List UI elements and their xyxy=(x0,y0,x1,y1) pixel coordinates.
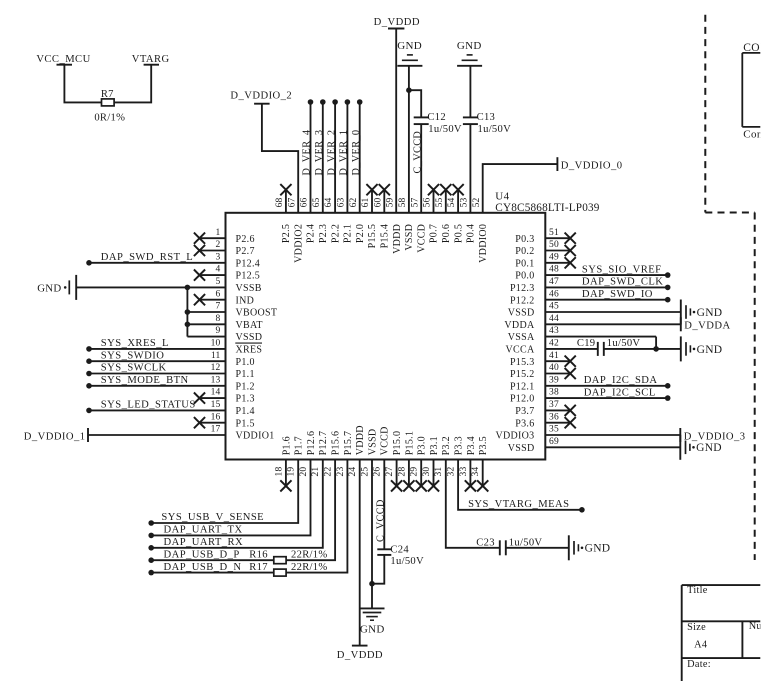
svg-text:P1.4: P1.4 xyxy=(236,406,255,417)
svg-text:DAP_SWD_RST_L: DAP_SWD_RST_L xyxy=(101,252,193,263)
svg-text:D_VDDIO_1: D_VDDIO_1 xyxy=(24,431,86,442)
svg-text:42: 42 xyxy=(549,339,559,349)
svg-text:P2.3: P2.3 xyxy=(318,224,329,243)
svg-text:P0.0: P0.0 xyxy=(515,271,534,282)
svg-text:P15.5: P15.5 xyxy=(367,224,378,249)
svg-text:P3.0: P3.0 xyxy=(417,436,428,455)
svg-text:P1.7: P1.7 xyxy=(294,436,305,455)
svg-text:1: 1 xyxy=(216,228,221,238)
svg-text:30: 30 xyxy=(422,467,432,477)
svg-text:SYS_SWDIO: SYS_SWDIO xyxy=(101,350,165,361)
svg-text:51: 51 xyxy=(549,228,559,238)
svg-text:DAP_USB_D_P: DAP_USB_D_P xyxy=(164,549,240,560)
svg-text:D_VDDIO_3: D_VDDIO_3 xyxy=(684,431,746,442)
svg-text:1u/50V: 1u/50V xyxy=(478,124,512,135)
svg-text:P3.5: P3.5 xyxy=(478,436,489,455)
svg-text:2: 2 xyxy=(216,240,221,250)
svg-text:P0.2: P0.2 xyxy=(515,246,534,257)
svg-text:58: 58 xyxy=(398,197,408,207)
svg-text:43: 43 xyxy=(549,326,559,336)
svg-text:P12.6: P12.6 xyxy=(306,431,317,456)
svg-text:D_VER_1: D_VER_1 xyxy=(339,130,350,176)
svg-text:Date:: Date: xyxy=(687,659,711,670)
svg-text:VDDIO3: VDDIO3 xyxy=(495,431,534,442)
svg-text:16: 16 xyxy=(211,412,221,422)
svg-text:38: 38 xyxy=(549,388,559,398)
svg-text:32: 32 xyxy=(447,467,457,477)
svg-text:P3.6: P3.6 xyxy=(515,418,534,429)
svg-text:10: 10 xyxy=(211,339,221,349)
svg-text:P15.0: P15.0 xyxy=(392,431,403,456)
svg-text:P15.6: P15.6 xyxy=(331,431,342,456)
svg-text:18: 18 xyxy=(274,467,284,477)
svg-text:20: 20 xyxy=(299,467,309,477)
svg-text:55: 55 xyxy=(435,197,445,207)
svg-text:VCC_MCU: VCC_MCU xyxy=(36,54,90,65)
svg-text:P12.4: P12.4 xyxy=(236,258,261,269)
svg-text:P2.0: P2.0 xyxy=(355,224,366,243)
svg-text:DAP_I2C_SCL: DAP_I2C_SCL xyxy=(584,387,656,398)
svg-text:56: 56 xyxy=(423,197,433,207)
svg-text:C_VCCD: C_VCCD xyxy=(413,131,424,174)
svg-text:11: 11 xyxy=(211,351,221,361)
svg-text:69: 69 xyxy=(549,437,559,447)
svg-text:VCCD: VCCD xyxy=(380,426,391,455)
svg-text:VTARG: VTARG xyxy=(132,54,170,65)
svg-text:DAP_SWD_CLK: DAP_SWD_CLK xyxy=(582,277,663,288)
svg-text:VSSD: VSSD xyxy=(508,308,535,319)
svg-text:P15.2: P15.2 xyxy=(510,369,535,380)
svg-text:P1.3: P1.3 xyxy=(236,394,255,405)
svg-text:P12.2: P12.2 xyxy=(510,295,535,306)
svg-text:P0.6: P0.6 xyxy=(441,224,452,243)
svg-text:P3.2: P3.2 xyxy=(441,436,452,455)
svg-text:D_VDDD: D_VDDD xyxy=(374,17,420,28)
svg-text:P1.2: P1.2 xyxy=(236,381,255,392)
svg-text:4: 4 xyxy=(216,265,221,275)
svg-text:9: 9 xyxy=(216,326,221,336)
svg-text:60: 60 xyxy=(373,197,383,207)
svg-text:VSSD: VSSD xyxy=(508,443,535,454)
svg-text:P12.3: P12.3 xyxy=(510,283,535,294)
svg-text:P3.7: P3.7 xyxy=(515,406,534,417)
svg-text:37: 37 xyxy=(549,400,559,410)
svg-text:SYS_LED_STATUS: SYS_LED_STATUS xyxy=(101,400,196,411)
svg-text:C12: C12 xyxy=(427,112,446,123)
svg-text:P0.3: P0.3 xyxy=(515,234,534,245)
svg-text:DAP_USB_D_N: DAP_USB_D_N xyxy=(164,562,242,573)
svg-text:P2.6: P2.6 xyxy=(236,234,255,245)
svg-text:IND: IND xyxy=(236,295,255,306)
svg-text:VDDIO0: VDDIO0 xyxy=(478,224,489,263)
svg-text:41: 41 xyxy=(549,351,559,361)
svg-text:54: 54 xyxy=(447,197,457,207)
svg-text:U4: U4 xyxy=(495,190,509,202)
svg-text:D_VDDIO_2: D_VDDIO_2 xyxy=(230,90,292,101)
svg-text:CY8C5868LTI-LP039: CY8C5868LTI-LP039 xyxy=(495,202,600,214)
svg-text:49: 49 xyxy=(549,252,559,262)
svg-text:GND: GND xyxy=(697,307,723,319)
svg-text:D_VER_4: D_VER_4 xyxy=(302,130,313,176)
svg-text:DAP_I2C_SDA: DAP_I2C_SDA xyxy=(584,375,658,386)
svg-text:P15.4: P15.4 xyxy=(380,224,391,249)
svg-text:P0.1: P0.1 xyxy=(515,258,534,269)
svg-text:VDDIO2: VDDIO2 xyxy=(293,224,304,263)
svg-text:3: 3 xyxy=(216,252,221,262)
svg-text:5: 5 xyxy=(216,277,221,287)
svg-text:R16: R16 xyxy=(249,549,268,560)
svg-text:40: 40 xyxy=(549,363,559,373)
svg-text:VSSB: VSSB xyxy=(236,283,262,294)
svg-text:22R/1%: 22R/1% xyxy=(291,562,328,573)
svg-text:39: 39 xyxy=(549,375,559,385)
svg-text:SYS_VTARG_MEAS: SYS_VTARG_MEAS xyxy=(468,499,569,510)
svg-text:P0.7: P0.7 xyxy=(429,224,440,243)
svg-text:31: 31 xyxy=(434,467,444,477)
svg-text:26: 26 xyxy=(373,467,383,477)
svg-text:D_VDDIO_0: D_VDDIO_0 xyxy=(561,160,623,171)
svg-text:65: 65 xyxy=(312,197,322,207)
svg-text:35: 35 xyxy=(549,425,559,435)
svg-text:R7: R7 xyxy=(101,89,114,100)
svg-text:C19: C19 xyxy=(577,338,596,349)
svg-text:P1.0: P1.0 xyxy=(236,357,255,368)
svg-text:P12.5: P12.5 xyxy=(236,271,261,282)
svg-text:SYS_MODE_BTN: SYS_MODE_BTN xyxy=(101,375,189,386)
svg-text:1u/50V: 1u/50V xyxy=(390,556,424,567)
svg-text:19: 19 xyxy=(287,467,297,477)
svg-text:P0.4: P0.4 xyxy=(466,224,477,243)
svg-text:53: 53 xyxy=(460,197,470,207)
svg-text:7: 7 xyxy=(216,302,221,312)
svg-text:8: 8 xyxy=(216,314,221,324)
svg-text:22R/1%: 22R/1% xyxy=(291,549,328,560)
svg-text:P2.4: P2.4 xyxy=(306,224,317,243)
svg-text:P2.1: P2.1 xyxy=(343,224,354,243)
svg-text:SYS_XRES_L: SYS_XRES_L xyxy=(101,338,169,349)
svg-text:67: 67 xyxy=(287,197,297,207)
svg-text:P12.1: P12.1 xyxy=(510,381,535,392)
svg-text:VDDA: VDDA xyxy=(504,320,535,331)
svg-text:P3.1: P3.1 xyxy=(429,436,440,455)
svg-text:VSSD: VSSD xyxy=(236,332,263,343)
svg-text:22: 22 xyxy=(324,467,334,477)
svg-text:14: 14 xyxy=(211,388,221,398)
svg-text:P2.5: P2.5 xyxy=(281,224,292,243)
svg-text:P0.5: P0.5 xyxy=(453,224,464,243)
svg-text:VCCA: VCCA xyxy=(506,345,535,356)
svg-text:1u/50V: 1u/50V xyxy=(607,338,641,349)
svg-text:P2.2: P2.2 xyxy=(330,224,341,243)
svg-text:GND: GND xyxy=(360,624,385,636)
svg-text:D_VDDD: D_VDDD xyxy=(337,650,383,661)
svg-text:23: 23 xyxy=(336,467,346,477)
svg-text:15: 15 xyxy=(211,400,221,410)
svg-text:34: 34 xyxy=(471,467,481,477)
svg-text:GND: GND xyxy=(37,283,61,295)
svg-text:C23: C23 xyxy=(476,537,495,548)
svg-text:DAP_UART_TX: DAP_UART_TX xyxy=(164,525,243,536)
svg-text:D_VDDA: D_VDDA xyxy=(684,321,730,332)
svg-text:66: 66 xyxy=(300,197,310,207)
svg-text:VSSD: VSSD xyxy=(404,224,415,251)
svg-text:P2.7: P2.7 xyxy=(236,246,255,257)
svg-text:50: 50 xyxy=(549,240,559,250)
svg-text:59: 59 xyxy=(386,197,396,207)
svg-text:P15.3: P15.3 xyxy=(510,357,535,368)
svg-text:44: 44 xyxy=(549,314,559,324)
svg-text:47: 47 xyxy=(549,277,559,287)
svg-text:VDDD: VDDD xyxy=(355,425,366,455)
svg-text:VSSD: VSSD xyxy=(367,429,378,456)
svg-text:57: 57 xyxy=(410,197,420,207)
svg-text:C13: C13 xyxy=(477,112,496,123)
svg-text:46: 46 xyxy=(549,289,559,299)
svg-text:C_VCCD: C_VCCD xyxy=(376,499,387,542)
svg-text:GND: GND xyxy=(457,40,482,52)
svg-text:62: 62 xyxy=(349,197,359,207)
svg-text:52: 52 xyxy=(472,197,482,207)
svg-text:29: 29 xyxy=(410,467,420,477)
svg-text:P12.0: P12.0 xyxy=(510,394,535,405)
svg-text:VBAT: VBAT xyxy=(236,320,263,331)
svg-text:27: 27 xyxy=(385,467,395,477)
svg-text:P15.1: P15.1 xyxy=(404,431,415,456)
svg-text:GND: GND xyxy=(585,543,611,555)
svg-text:Size: Size xyxy=(687,622,706,633)
svg-text:36: 36 xyxy=(549,412,559,422)
svg-text:D_VER_2: D_VER_2 xyxy=(326,130,337,176)
svg-text:12: 12 xyxy=(211,363,221,373)
svg-text:VCCD: VCCD xyxy=(416,224,427,253)
svg-text:48: 48 xyxy=(549,265,559,275)
svg-text:45: 45 xyxy=(549,302,559,312)
svg-text:GND: GND xyxy=(697,344,723,356)
svg-text:VSSA: VSSA xyxy=(508,332,535,343)
svg-text:61: 61 xyxy=(361,197,371,207)
svg-text:P12.7: P12.7 xyxy=(318,431,329,456)
svg-text:21: 21 xyxy=(311,467,321,477)
svg-text:SYS_USB_V_SENSE: SYS_USB_V_SENSE xyxy=(161,512,264,523)
svg-text:33: 33 xyxy=(459,467,469,477)
svg-text:63: 63 xyxy=(337,197,347,207)
svg-text:P15.7: P15.7 xyxy=(343,431,354,456)
svg-text:P1.5: P1.5 xyxy=(236,418,255,429)
svg-text:0R/1%: 0R/1% xyxy=(94,112,125,123)
svg-text:VDDIO1: VDDIO1 xyxy=(236,431,275,442)
svg-text:A4: A4 xyxy=(694,640,707,651)
svg-text:D_VER_3: D_VER_3 xyxy=(314,130,325,176)
svg-text:68: 68 xyxy=(275,197,285,207)
svg-text:P1.6: P1.6 xyxy=(281,436,292,455)
svg-text:VDDD: VDDD xyxy=(392,224,403,254)
svg-text:VBOOST: VBOOST xyxy=(236,308,278,319)
svg-text:13: 13 xyxy=(211,375,221,385)
svg-text:DAP_UART_RX: DAP_UART_RX xyxy=(164,537,244,548)
svg-text:P3.4: P3.4 xyxy=(466,436,477,455)
svg-text:1u/50V: 1u/50V xyxy=(428,124,462,135)
svg-text:64: 64 xyxy=(324,197,334,207)
svg-text:SYS_SWCLK: SYS_SWCLK xyxy=(101,363,167,374)
svg-text:D_VER_0: D_VER_0 xyxy=(351,130,362,176)
svg-text:R17: R17 xyxy=(249,562,268,573)
svg-text:17: 17 xyxy=(211,425,221,435)
svg-text:GND: GND xyxy=(696,442,722,454)
svg-text:1u/50V: 1u/50V xyxy=(509,537,543,548)
svg-text:28: 28 xyxy=(397,467,407,477)
svg-text:24: 24 xyxy=(348,467,358,477)
svg-text:6: 6 xyxy=(216,289,221,299)
svg-text:P3.3: P3.3 xyxy=(454,436,465,455)
svg-text:SYS_SIO_VREF: SYS_SIO_VREF xyxy=(582,264,662,275)
svg-text:XRES: XRES xyxy=(236,345,263,356)
svg-text:P1.1: P1.1 xyxy=(236,369,255,380)
svg-text:DAP_SWD_IO: DAP_SWD_IO xyxy=(582,289,653,300)
svg-text:GND: GND xyxy=(397,40,422,52)
svg-text:C24: C24 xyxy=(390,544,409,555)
svg-text:Title: Title xyxy=(687,585,708,596)
svg-text:25: 25 xyxy=(360,467,370,477)
